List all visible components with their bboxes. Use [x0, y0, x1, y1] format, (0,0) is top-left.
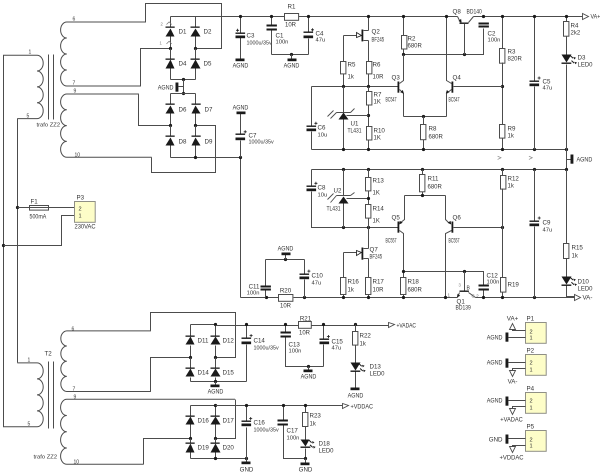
- wire R3 stubs: [502, 17, 504, 125]
- diode D5: [191, 59, 201, 69]
- transformer T2 secondary winding 9-10: [61, 399, 235, 464]
- svg-text:LED0: LED0: [319, 448, 335, 455]
- transistor Q4 BC547: [446, 17, 454, 117]
- svg-text:TL431: TL431: [348, 128, 362, 135]
- junction C7 negative node: [239, 156, 242, 159]
- svg-text:230VAC: 230VAC: [75, 224, 96, 231]
- wire diode D5 stubs: [195, 49, 197, 80]
- svg-text:1: 1: [530, 336, 533, 342]
- svg-text:R8: R8: [429, 126, 437, 133]
- junction R11 bottom: [421, 194, 424, 197]
- junction C3 top: [239, 15, 242, 18]
- svg-text:VA+: VA+: [591, 14, 600, 21]
- wire AGND stub: [285, 255, 287, 260]
- capacitor C3: [236, 29, 246, 38]
- junction C11 on VA- rail: [265, 296, 268, 299]
- resistor R7: [367, 92, 372, 106]
- svg-text:47u: 47u: [316, 38, 326, 44]
- transformer T1 core: [49, 55, 54, 120]
- svg-text:+VDDAC: +VDDAC: [500, 455, 524, 462]
- junction AC node D12/D15: [214, 356, 217, 359]
- svg-text:10R: 10R: [373, 288, 385, 294]
- junction C12 on VA- rail: [482, 296, 485, 299]
- svg-text:BC557: BC557: [386, 238, 397, 245]
- svg-text:P2: P2: [527, 348, 535, 355]
- svg-text:1000u/35v: 1000u/35v: [249, 140, 274, 146]
- svg-text:10u: 10u: [318, 193, 328, 199]
- transistor Q8 BD140: [458, 17, 474, 55]
- capacitor C9: [530, 217, 541, 227]
- svg-text:5: 5: [28, 422, 31, 428]
- junction AC node D6/D8: [169, 124, 172, 127]
- wire diode D14 stubs: [190, 358, 192, 382]
- junction R17 on VA- rail: [367, 296, 370, 299]
- svg-text:C1: C1: [276, 33, 284, 40]
- svg-text:100n: 100n: [289, 349, 302, 355]
- junction R8 top: [422, 115, 425, 118]
- diode D16: [186, 416, 195, 425]
- wire capacitor C4 stubs: [308, 17, 310, 55]
- svg-text:F1: F1: [31, 199, 39, 206]
- junction C1/C4 AGND tap: [290, 53, 293, 56]
- wire bridge2 top AGND rail: [171, 93, 196, 95]
- wire R15/D10 stubs: [567, 170, 575, 297]
- wire T1 pin10 to bridge AC node D7/D9: [152, 126, 216, 173]
- svg-text:C13: C13: [289, 342, 301, 349]
- wire T1 pin7 to bridge AC node D1/D4: [141, 49, 171, 87]
- capacitor C10: [300, 270, 311, 280]
- R9 pin mark: [498, 156, 501, 159]
- junction C10 on VA- rail: [303, 296, 306, 299]
- wire Q3/Q4 emitters to R8: [404, 116, 447, 118]
- svg-text:U1: U1: [351, 121, 359, 128]
- wire diode D8 stubs: [170, 126, 172, 158]
- wire connector P3 pin1 to mains line 1: [4, 216, 75, 246]
- junction C13 top: [284, 323, 287, 326]
- svg-text:BF245: BF245: [372, 37, 385, 44]
- resistor R23: [303, 413, 308, 427]
- svg-text:R14: R14: [373, 206, 385, 213]
- svg-text:D3: D3: [578, 55, 586, 62]
- wire diode D20 stubs: [215, 439, 217, 459]
- resistor R1: [285, 14, 299, 21]
- wire R16/R17/R18 bottoms: [344, 295, 404, 298]
- diode D19: [186, 443, 195, 453]
- ground GND (P5): [489, 435, 509, 444]
- regulator U2 TL431: [328, 170, 369, 228]
- svg-text:D19: D19: [198, 445, 210, 452]
- svg-text:Q7: Q7: [370, 247, 379, 254]
- svg-text:TL431: TL431: [327, 206, 341, 213]
- junction Q1 base node: [463, 270, 466, 273]
- wire capacitor C17 stubs and ground link: [284, 406, 306, 459]
- capacitor C7: [236, 130, 247, 140]
- diode D9: [192, 136, 201, 146]
- svg-text:R1: R1: [288, 4, 296, 11]
- wire diode D17 stubs: [215, 406, 217, 439]
- svg-text:U2: U2: [334, 188, 342, 195]
- wire bridge4 positive rail: [191, 405, 216, 407]
- svg-text:AGND: AGND: [487, 335, 503, 342]
- net arrow +VADAC (P4): [510, 409, 516, 415]
- wire P1 pin1 to AGND: [509, 337, 526, 339]
- junction R7/R10/U1 ref: [367, 114, 370, 117]
- wire Q2 drain to rail: [368, 17, 370, 31]
- svg-text:AGND: AGND: [348, 393, 364, 400]
- svg-text:1000u/35v: 1000u/35v: [247, 41, 272, 47]
- connector P3: [75, 195, 96, 223]
- wire C12 bottom: [483, 291, 485, 298]
- svg-text:C7: C7: [249, 133, 257, 140]
- wire rail B left end to C8: [311, 170, 313, 186]
- svg-text:10R: 10R: [285, 23, 297, 29]
- svg-text:9: 9: [74, 395, 77, 401]
- junction U2 on rail B: [342, 168, 345, 171]
- wire R2 bottom / Q8 base / C2 node: [404, 29, 484, 55]
- wire top positive rail right of Q8 (VA+): [474, 16, 583, 18]
- svg-text:LED0: LED0: [578, 286, 594, 293]
- svg-text:D12: D12: [223, 338, 235, 345]
- resistor R3: [500, 49, 505, 64]
- junction R4 top: [565, 15, 568, 18]
- wire capacitor C15 stubs: [323, 325, 325, 367]
- wire Q7 gate to R16: [343, 253, 345, 278]
- wire C6 top to reference node: [311, 87, 313, 126]
- svg-text:1k: 1k: [348, 288, 355, 294]
- wire capacitor C1 stubs: [271, 17, 273, 55]
- wire C1/C4 ground link: [272, 54, 309, 56]
- transformer T2 secondary winding 6-7: [61, 331, 151, 392]
- svg-text:C14: C14: [254, 338, 266, 345]
- svg-text:R6: R6: [373, 62, 381, 69]
- wire Q5/Q6 emitters: [405, 195, 446, 197]
- junction D20 bottom: [214, 457, 217, 460]
- junction R3 top: [501, 15, 504, 18]
- transistor Q6 BC557: [446, 196, 454, 298]
- svg-text:D10: D10: [578, 279, 590, 286]
- wire T1 pin1 / T2 pin5 vertical: [3, 56, 5, 427]
- svg-text:Q2: Q2: [372, 29, 381, 36]
- wire lower reference node: [312, 192, 398, 228]
- net arrow +VADAC: [389, 323, 417, 330]
- svg-text:C17: C17: [287, 428, 299, 435]
- wire capacitor C11 stubs: [265, 260, 267, 298]
- svg-text:1: 1: [79, 214, 82, 220]
- wire R22/D13 stubs: [355, 325, 357, 388]
- ground AGND (bridge mid): [158, 83, 179, 92]
- svg-text:R17: R17: [373, 279, 385, 286]
- wire R8 stubs: [423, 117, 425, 150]
- junction R2/Q3 collector: [402, 53, 405, 56]
- svg-text:6: 6: [72, 327, 75, 333]
- junction R6/R7/Q3 base: [367, 85, 370, 88]
- diode D12: [211, 336, 221, 345]
- wire T1 pin5 / T2 pin1 vertical: [17, 119, 19, 363]
- transistor Q7 BF245 JFET: [344, 248, 369, 260]
- resistor R16: [341, 278, 346, 295]
- net arrow VA+: [583, 14, 600, 21]
- transistor Q2 BF245 JFET: [344, 30, 369, 42]
- svg-text:2: 2: [530, 361, 533, 367]
- wire P5 pin2 to GND: [509, 438, 526, 440]
- svg-text:LED0: LED0: [578, 62, 594, 69]
- ground AGND (P4): [487, 397, 509, 406]
- junction R12 on rail B: [501, 168, 504, 171]
- wire capacitor C3 stubs: [240, 17, 242, 59]
- wire R4/D3 stubs: [566, 17, 568, 150]
- svg-text:D20: D20: [223, 445, 235, 452]
- wire +VADAC rail: [216, 325, 389, 327]
- wire P4 pin2 to AGND: [509, 400, 526, 402]
- LED D13: [351, 363, 366, 373]
- svg-text:AGND: AGND: [487, 398, 503, 405]
- resistor R9: [500, 125, 505, 139]
- svg-text:C5: C5: [543, 79, 551, 86]
- junction R13 on rail B: [367, 168, 370, 171]
- capacitor C15: [320, 335, 330, 344]
- wire R18 top stub: [403, 272, 405, 278]
- svg-text:+VDDAC: +VDDAC: [351, 404, 374, 411]
- svg-text:D1: D1: [179, 29, 187, 36]
- resistor R21: [299, 322, 312, 329]
- wire R23/D18 stubs: [305, 406, 307, 459]
- svg-text:C12: C12: [487, 273, 499, 280]
- junction AGND tap (C10/C11): [284, 258, 287, 261]
- svg-text:100n: 100n: [487, 280, 500, 286]
- svg-text:10R: 10R: [299, 331, 311, 337]
- wire VA- rail right segment: [476, 297, 575, 299]
- wire P2 pin1 to VA-: [513, 369, 526, 371]
- wire diode D1 stubs: [170, 17, 172, 49]
- resistor R6: [367, 62, 372, 74]
- connector P4: [526, 386, 547, 414]
- wire diode D7 stubs: [195, 94, 197, 126]
- resistor R5: [341, 62, 346, 74]
- svg-text:R18: R18: [408, 279, 420, 286]
- capacitor C12: [479, 285, 489, 291]
- junction R13/R14/U2 ref: [367, 197, 370, 200]
- wire GND stub: [305, 459, 307, 463]
- capacitor C17: [278, 420, 288, 426]
- junction R18 on VA- rail: [402, 296, 405, 299]
- wire R5/R6 bottoms: [344, 74, 369, 87]
- wire Q4 base to R3/R9: [454, 86, 503, 88]
- svg-text:10R: 10R: [280, 304, 292, 310]
- capacitor C6: [307, 122, 318, 131]
- svg-text:VA+: VA+: [507, 316, 519, 323]
- wire top positive rail left of Q8: [171, 16, 458, 18]
- wire R7 stubs: [368, 87, 370, 127]
- wire bridge4 GND rail: [191, 458, 247, 460]
- svg-text:1K: 1K: [374, 136, 381, 142]
- junction D17 top: [214, 404, 217, 407]
- junction D18/C17 ground node: [304, 457, 307, 460]
- svg-text:2k2: 2k2: [571, 31, 581, 37]
- svg-text:AGND: AGND: [577, 157, 593, 164]
- svg-text:AGND: AGND: [487, 360, 503, 367]
- wire rail A to rail B link: [566, 150, 568, 170]
- resistor R15: [564, 244, 569, 259]
- svg-text:47u: 47u: [543, 228, 553, 234]
- svg-text:D16: D16: [198, 418, 210, 425]
- junction AC node D2/D5: [194, 47, 197, 50]
- transformer T2 core: [49, 362, 54, 429]
- wire AGND stub right: [567, 159, 571, 161]
- connector P2: [526, 348, 547, 376]
- resistor R8: [421, 125, 426, 140]
- resistor R17: [366, 278, 371, 295]
- net arrow VA-: [575, 295, 593, 302]
- junction AC node D17/D20: [214, 437, 217, 440]
- wire P2 pin2 to AGND: [509, 362, 526, 364]
- svg-text:trafo ZZ2: trafo ZZ2: [34, 455, 58, 461]
- svg-text:100n: 100n: [287, 436, 300, 442]
- svg-text:AGND: AGND: [284, 63, 300, 70]
- ground GND (C16): [240, 462, 254, 474]
- resistor R11: [420, 175, 425, 192]
- transistor Q1 BD139: [457, 272, 476, 298]
- junction Q6 collector on VA- rail: [444, 296, 447, 299]
- wire diode D9 stubs: [195, 126, 197, 158]
- wire P5 pin1 to +VDDAC: [513, 446, 526, 447]
- wire diode D11 stubs: [190, 325, 192, 358]
- junction Q4 collector / Q8 emitter: [445, 15, 448, 18]
- junction R2 top: [402, 15, 405, 18]
- svg-text:1: 1: [28, 358, 31, 364]
- svg-text:AGND: AGND: [301, 374, 317, 381]
- wire capacitor C10 stubs: [304, 260, 306, 298]
- svg-text:D2: D2: [204, 29, 212, 36]
- junction D9 bottom: [194, 156, 197, 159]
- svg-text:47u: 47u: [543, 86, 553, 92]
- junction C4 top: [307, 15, 310, 18]
- wire Q6 base to R12/R19: [454, 227, 503, 229]
- svg-text:LED0: LED0: [370, 371, 386, 378]
- svg-text:AGND: AGND: [278, 246, 294, 253]
- wire VA- raw rail from bridge to bottom: [171, 158, 241, 298]
- svg-text:BD139: BD139: [456, 305, 472, 312]
- junction AC node D16/D19: [189, 437, 192, 440]
- junction mains line 1: [2, 244, 5, 247]
- svg-text:AGND: AGND: [233, 105, 249, 112]
- wire diode D12 stubs: [215, 325, 217, 358]
- svg-text:D14: D14: [198, 370, 210, 377]
- svg-text:10: 10: [74, 460, 80, 466]
- svg-text:Q3: Q3: [392, 75, 401, 82]
- diode D8: [166, 136, 175, 146]
- ground AGND (D13): [348, 388, 364, 400]
- diode D1: [166, 27, 175, 37]
- wire diode D4 stubs: [170, 49, 172, 80]
- svg-text:6: 6: [73, 17, 76, 23]
- svg-text:1000u/35v: 1000u/35v: [254, 428, 279, 434]
- wire GND stub: [246, 459, 248, 462]
- wire R10 bottom: [368, 141, 370, 150]
- resistor R20: [279, 295, 293, 302]
- svg-text:AGND: AGND: [233, 63, 249, 70]
- svg-text:10u: 10u: [318, 133, 328, 139]
- wire rail A left end to C6: [311, 132, 313, 150]
- svg-text:R12: R12: [508, 176, 520, 183]
- svg-text:D8: D8: [179, 139, 187, 146]
- junction C5 on rail A: [533, 148, 536, 151]
- junction C14 top: [245, 323, 248, 326]
- wire diode D15 stubs: [215, 358, 217, 382]
- junction R14/Q7 drain node: [367, 226, 370, 229]
- junction U2 cathode node: [342, 226, 345, 229]
- ground AGND (C10/C11): [278, 246, 294, 256]
- wire C10/C11 AGND link: [266, 259, 305, 261]
- junction AC node D7/D9: [194, 124, 197, 127]
- ground AGND (C7): [233, 105, 249, 115]
- junction C16 bottom: [245, 457, 248, 460]
- wire bridge3 AGND rail: [191, 381, 247, 383]
- wire R13 stubs: [368, 170, 370, 205]
- svg-text:R13: R13: [373, 178, 385, 185]
- transistor Q3 BC547: [398, 55, 404, 117]
- svg-text:Q8: Q8: [453, 9, 462, 16]
- wire fuse to connector P3 pin 2: [18, 207, 75, 209]
- wire P1 pin2 to VA+: [513, 330, 526, 331]
- svg-text:AGND: AGND: [158, 85, 174, 92]
- transformer T1 primary winding: [3, 55, 43, 118]
- junction C15 top: [322, 323, 325, 326]
- capacitor C2: [479, 23, 489, 28]
- diode D6: [166, 104, 175, 114]
- ground AGND (P1): [487, 333, 509, 342]
- svg-text:+VADAC: +VADAC: [397, 323, 417, 330]
- net arrow VA+ (P1): [510, 324, 516, 330]
- diode D14: [186, 368, 195, 377]
- junction R16 on VA- rail: [342, 296, 345, 299]
- diode D17: [211, 416, 221, 425]
- fuse F1: [30, 206, 49, 211]
- svg-text:GND: GND: [299, 467, 313, 474]
- svg-text:VA-: VA-: [508, 379, 518, 386]
- svg-text:1k: 1k: [310, 422, 317, 428]
- junction R9 on rail A: [501, 148, 504, 151]
- diode D2: [191, 27, 201, 37]
- junction AC node D11/D14: [189, 356, 192, 359]
- wire R12 stubs: [502, 170, 504, 228]
- wire AGND symbol stub: [179, 86, 184, 88]
- junction R12/R19/Q6 base: [501, 226, 504, 229]
- junction R11 on rail B: [421, 168, 424, 171]
- svg-text:R23: R23: [310, 413, 322, 420]
- diode D7: [192, 104, 201, 114]
- svg-text:D18: D18: [319, 441, 331, 448]
- junction R15 on rail B: [565, 168, 568, 171]
- svg-text:BD140: BD140: [467, 9, 483, 16]
- wire T1 pin6 to bridge AC node D2/D5: [146, 4, 222, 49]
- svg-text:680R: 680R: [408, 44, 423, 50]
- junction C17 top: [282, 404, 285, 407]
- wire capacitor C16 stubs: [246, 406, 248, 459]
- net arrow VA- (P2): [510, 371, 516, 377]
- transformer T2 primary winding: [3, 363, 43, 427]
- junction Q5 collector/R18: [402, 270, 405, 273]
- junction bridge1 AGND tap: [182, 78, 185, 81]
- svg-text:1K: 1K: [373, 219, 380, 225]
- capacitor C13: [281, 332, 291, 338]
- svg-text:T2: T2: [45, 351, 53, 358]
- svg-text:R15: R15: [572, 245, 584, 252]
- C5 pin mark: [529, 156, 532, 159]
- svg-text:1k: 1k: [572, 254, 579, 260]
- capacitor C1: [267, 25, 277, 31]
- svg-text:R16: R16: [348, 279, 360, 286]
- svg-text:100n: 100n: [488, 38, 501, 44]
